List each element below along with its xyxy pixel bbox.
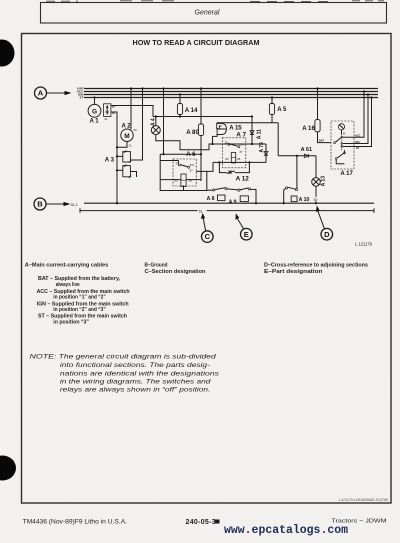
node junction BAT bus / A3 feed — [141, 87, 143, 89]
wire horn top feed line — [217, 122, 279, 124]
legend block — [25, 262, 368, 325]
node junction A6 feed — [162, 153, 164, 155]
regulator beside A1 — [104, 104, 116, 121]
wire A7 lower rail — [207, 162, 266, 171]
node junction BAT bus / fuse A16 — [316, 87, 318, 89]
node junction A3 lower — [116, 169, 118, 171]
header band box — [41, 3, 387, 24]
node junction A12 left — [218, 161, 220, 163]
fuse A5 — [269, 98, 287, 123]
node junction charge line / lamp A4 — [155, 115, 157, 117]
node junction IGN bus / fuse A14 — [179, 93, 181, 95]
node C callout circle — [201, 213, 213, 243]
bus labels BAT ACC IGN ST — [77, 87, 84, 100]
wire BAT drop to A3 upper right — [130, 89, 142, 161]
CIRCUIT AREA — [0, 0, 1, 1]
node junction starter ground — [116, 146, 118, 148]
relay A6 — [160, 151, 201, 190]
node junction BAT bus / starter feed — [130, 87, 132, 89]
node D callout circle — [316, 206, 333, 241]
wire bus ACC — [84, 91, 378, 93]
wire ground bus — [84, 202, 374, 204]
relay A7 — [222, 131, 246, 167]
node E callout circle — [235, 213, 252, 240]
node junction ST bus / fuse A5 — [271, 96, 273, 98]
wire A4 bottom run to relay feed — [156, 135, 213, 150]
wire A16 to main switch BAT — [318, 132, 332, 143]
wire bus IGN — [84, 94, 378, 96]
node junction charge line / fuse A14 — [179, 115, 181, 117]
top edge scan marks — [46, 0, 384, 2]
wire A2 terminal 31 to ground drop — [117, 141, 127, 147]
node junction ground / D+ drop — [116, 202, 118, 204]
wire A5 drop to A61 line — [277, 123, 279, 156]
diode A11 — [250, 117, 263, 145]
binder hole bottom — [0, 456, 16, 481]
glow plugs A3 — [105, 151, 131, 178]
node junction ground / switch A9 — [255, 202, 257, 204]
binder hole top — [0, 40, 15, 67]
relay A6 outer wiring — [160, 89, 207, 191]
charge lamp A4 — [151, 118, 161, 134]
diode A75 — [259, 142, 268, 162]
fuse A14 — [177, 95, 198, 117]
node A callout circle — [35, 87, 72, 99]
wire A3 lower right stub — [130, 172, 136, 178]
horn A15 — [217, 123, 243, 134]
wire ground drop to A3 lower — [117, 169, 123, 171]
node junction IGN bus / main switch — [367, 93, 369, 95]
wire bus ST — [84, 97, 378, 99]
node junction A6 top / A80 drop — [200, 153, 202, 155]
section designation line — [80, 208, 374, 214]
generator A1 — [88, 98, 101, 125]
node B callout circle — [34, 198, 78, 210]
wire A4 top to charge line — [155, 117, 157, 126]
switch A8 — [207, 188, 228, 202]
wire charge line — [153, 116, 252, 118]
node junction horn feed — [211, 143, 213, 145]
wire ST drop to A2 terminal 50 — [130, 89, 132, 130]
safety start switch A12 — [219, 162, 249, 182]
fuse A16 — [302, 89, 320, 133]
node junction ground / lamp A13 — [315, 202, 317, 204]
node junction ACC bus / main switch — [363, 90, 365, 92]
wire ST drop to A17 — [348, 98, 372, 147]
node junction A12 right — [248, 161, 250, 163]
diode A61 — [278, 147, 316, 158]
main switch A17 — [331, 121, 354, 177]
wire bus BAT — [84, 88, 378, 90]
junction dots — [93, 87, 372, 204]
node junction BAT bus / A6 feed — [162, 87, 164, 89]
indicator lamp A13 — [312, 156, 327, 203]
fuse A80 — [186, 89, 203, 182]
node junction ST bus / generator — [93, 96, 95, 98]
node junction diode A11 / relay feed — [251, 143, 253, 145]
wire ground drop to A3 upper — [117, 155, 123, 157]
node junction ST bus / main switch — [370, 96, 372, 98]
node junction A3 upper — [116, 155, 118, 157]
note block — [30, 354, 220, 394]
wire A15 bottom to feed — [213, 135, 218, 145]
switch A10 — [284, 156, 310, 203]
starter motor A2 — [121, 123, 137, 147]
node junction A61 line / switch A10 — [296, 155, 298, 157]
node junction ground / switch A10 — [283, 202, 285, 204]
wire D+ to ground drop — [111, 112, 117, 203]
node junction BAT bus / fuse A80 — [200, 87, 202, 89]
wire relay feed line — [209, 143, 266, 145]
wire IGN drop to A17 — [348, 95, 368, 144]
wire ACC drop to A17 — [348, 92, 364, 138]
wire B+ to charge line — [111, 106, 153, 117]
node charge line / diode A11 — [251, 115, 253, 117]
scan noise overlay — [0, 0, 1, 1]
switch A9 — [227, 188, 256, 206]
